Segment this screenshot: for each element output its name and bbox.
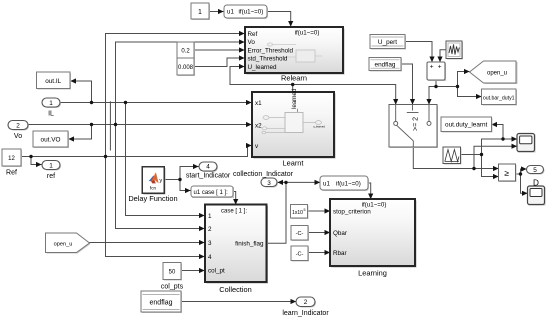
wire branch up to scope input2 <box>474 146 517 168</box>
inport 2 Vo <box>8 121 29 141</box>
sum block <box>427 62 446 81</box>
svg-text:1: 1 <box>49 163 53 170</box>
svg-text:-C-: -C- <box>296 231 304 237</box>
relational operator block <box>499 164 517 182</box>
svg-text:3: 3 <box>267 180 271 187</box>
svg-text:2: 2 <box>16 123 20 130</box>
junction goto branch <box>456 85 459 88</box>
wire to scope2 <box>521 174 528 193</box>
wire finish_flag up <box>267 182 287 243</box>
wire u1-case to Collection trigger <box>233 192 236 205</box>
wire Vo line to Learnt x2 <box>28 124 251 126</box>
wire to collection_Indicator port <box>278 181 286 183</box>
junction switch output <box>472 167 475 170</box>
svg-text:if(u1~=0): if(u1~=0) <box>295 30 320 37</box>
triangle wave generator <box>443 147 462 165</box>
inport 1 IL <box>42 98 61 117</box>
scope block 2 <box>528 186 546 206</box>
junction ref vertical <box>104 155 107 158</box>
wire u_learned net to switch input1 <box>293 85 396 105</box>
svg-text:learn_Indicator: learn_Indicator <box>282 310 329 317</box>
MATLAB function block Delay Function <box>128 167 177 204</box>
svg-text:Relearn: Relearn <box>281 74 307 83</box>
switch block <box>389 105 438 149</box>
svg-text:u_learned: u_learned <box>313 124 325 128</box>
svg-text:1x10: 1x10 <box>292 210 303 216</box>
junction collection indicator <box>284 181 287 184</box>
svg-text:Ref: Ref <box>248 31 258 38</box>
wire if-block1 to Relearn action port <box>267 12 291 27</box>
svg-text:-C-: -C- <box>296 252 304 258</box>
junction IL to Collection <box>124 101 127 104</box>
out.bar_duty1 <box>482 89 518 106</box>
svg-text:3: 3 <box>208 240 212 247</box>
svg-text:endflag: endflag <box>375 62 396 69</box>
svg-text:start_Indicator: start_Indicator <box>186 173 231 180</box>
svg-text:out.bar_duty1: out.bar_duty1 <box>483 95 515 101</box>
junction delay output <box>178 178 181 181</box>
wire sum output down <box>435 80 437 87</box>
wire U_pert to sum <box>405 42 432 62</box>
svg-text:col_pts: col_pts <box>161 283 184 290</box>
svg-text:≥: ≥ <box>504 168 509 178</box>
wire -C- to Qbar <box>308 232 330 234</box>
svg-text:U_pert: U_pert <box>378 39 397 46</box>
wire noise to sum <box>440 50 446 62</box>
wire if-block2 to Learning action port <box>368 183 371 199</box>
junction sum output <box>434 85 437 88</box>
svg-text:2: 2 <box>304 299 308 306</box>
wire u_learned feedback to Relearn U_learned <box>230 67 293 85</box>
case action block u1 case <box>191 186 234 198</box>
wire vertical stub <box>109 102 111 150</box>
svg-text:5: 5 <box>533 167 537 174</box>
wire carrier to relational input2 <box>482 176 499 178</box>
From tag endflag bottom <box>141 291 182 313</box>
wire to open_u Goto <box>458 72 470 87</box>
constant 0.008 <box>177 58 195 76</box>
wire Vo net vertical down to Collection in2 <box>116 125 205 229</box>
svg-text:0.2: 0.2 <box>181 48 190 54</box>
junction duty branch <box>501 137 504 140</box>
svg-text:IL: IL <box>48 110 54 117</box>
outport 1 ref <box>42 161 61 180</box>
outport 5 <box>527 166 545 188</box>
wire endflag to switch input2 <box>401 64 413 104</box>
if action block u1 if(u1~=0) <box>224 5 268 19</box>
constant 1 <box>191 3 210 20</box>
svg-text:out.VO: out.VO <box>41 137 61 144</box>
svg-text:Rbar: Rbar <box>333 250 347 257</box>
constant 0.2 <box>177 42 195 59</box>
wire junction to u1-case <box>180 180 190 191</box>
From tag endflag top <box>369 58 402 72</box>
wire const1 to if-block1 <box>209 11 223 13</box>
svg-text:x1: x1 <box>255 100 262 107</box>
svg-text:finish_flag: finish_flag <box>235 241 264 248</box>
constant -C- Rbar <box>291 246 309 262</box>
svg-text:case [ 1 ]:: case [ 1 ]: <box>221 209 247 215</box>
svg-text:u_learned: u_learned <box>292 89 298 116</box>
svg-text:ref: ref <box>47 173 55 180</box>
svg-text:u1: u1 <box>323 181 330 188</box>
svg-text:stop_criterion: stop_criterion <box>333 208 371 215</box>
svg-text:0.008: 0.008 <box>178 65 194 71</box>
svg-text:Ref: Ref <box>6 170 17 177</box>
svg-text:Learnt: Learnt <box>283 159 304 168</box>
svg-text:y: y <box>159 178 162 184</box>
wire 50 to col_pt <box>181 270 204 272</box>
svg-text:Qbar: Qbar <box>333 230 347 237</box>
svg-text:collection_Indicator: collection_Indicator <box>233 171 294 178</box>
svg-text:Collection: Collection <box>219 285 251 294</box>
outport 3 collection_Indicator <box>233 171 294 187</box>
svg-text:4: 4 <box>206 164 210 171</box>
wire junction to start_Indicator <box>180 167 198 180</box>
svg-text:open_u: open_u <box>487 71 507 77</box>
svg-text:+: + <box>438 64 442 71</box>
svg-text:col_pt: col_pt <box>208 267 225 274</box>
wire 0.2 to Error_Threshold <box>194 49 244 51</box>
svg-text:2: 2 <box>208 226 212 233</box>
svg-text:if(u1~=0): if(u1~=0) <box>336 181 361 188</box>
svg-text:Vo: Vo <box>14 133 22 140</box>
wire carrier vertical <box>481 139 483 177</box>
constant 12 Ref <box>2 149 22 177</box>
wire ref net vertical to Relearn Ref <box>106 34 245 157</box>
outport 2 learn_Indicator <box>282 297 329 317</box>
junction out.IL branch <box>90 101 93 104</box>
svg-text:endflag: endflag <box>150 299 173 306</box>
wire Delay Function output junction <box>164 179 180 181</box>
wire IL line to Learnt x1 <box>60 102 251 104</box>
wire branch to out.duty_learnt <box>492 125 503 140</box>
svg-text:Delay Function: Delay Function <box>128 194 177 203</box>
wire relational output <box>516 173 521 175</box>
wire 12 constant to Learnt v <box>21 146 251 157</box>
wire open_u From to Collection in3 <box>90 242 205 244</box>
subsystem Learning <box>330 199 417 277</box>
svg-text:U_learned: U_learned <box>248 64 278 71</box>
out.IL <box>37 72 72 90</box>
svg-text:4: 4 <box>208 254 212 261</box>
wire branch to out.IL <box>71 81 92 103</box>
junction ref oval branch <box>29 155 32 158</box>
wire -C- to Rbar <box>308 252 330 254</box>
svg-text:Learning: Learning <box>358 268 387 277</box>
junction Vo vertical <box>114 123 117 126</box>
wire ref net vertical down to Collection in4 <box>106 157 205 257</box>
if action block 2 <box>320 176 369 191</box>
wire 1x10 to stop_criterion <box>308 210 330 212</box>
svg-text:if(u1~=0): if(u1~=0) <box>239 9 264 16</box>
wire sum net to switch input3 <box>429 87 436 105</box>
svg-text:>= 2: >= 2 <box>413 117 420 131</box>
svg-text:u1: u1 <box>227 9 234 16</box>
svg-text:out.duty_learnt: out.duty_learnt <box>445 122 488 129</box>
wire switch output to relational input1 <box>413 147 498 169</box>
junction out.VO branch <box>90 123 93 126</box>
outport 4 start_Indicator <box>186 162 231 180</box>
constant 50 col_pts <box>161 263 184 291</box>
constant 1x10 <box>291 205 309 220</box>
wire u_learned net from Learnt top <box>292 85 294 93</box>
svg-text:1: 1 <box>198 9 202 16</box>
scope block 1 <box>517 134 536 153</box>
Goto tag open_u <box>470 61 518 84</box>
wire IL net down to Collection in1 <box>126 103 205 216</box>
svg-text:1: 1 <box>208 213 212 220</box>
From tag U_pert <box>370 35 406 50</box>
From tag open_u left <box>46 233 91 254</box>
svg-text:+: + <box>430 64 434 71</box>
wire branch to ref outport <box>31 157 41 165</box>
out.VO <box>33 131 69 148</box>
svg-text:x2: x2 <box>255 122 262 129</box>
wire to out.bar_duty1 <box>458 87 482 97</box>
wire sum net right <box>436 86 458 88</box>
subsystem Collection <box>205 205 268 294</box>
svg-text:if(u1~=0): if(u1~=0) <box>362 201 387 208</box>
junction relational output <box>519 172 522 175</box>
svg-text:open_u: open_u <box>54 242 73 248</box>
junction carrier <box>480 153 483 156</box>
wire to if-block2 <box>286 181 320 183</box>
out.duty_learnt <box>441 117 493 133</box>
junction u_learned net <box>291 83 294 86</box>
svg-text:50: 50 <box>169 270 176 276</box>
svg-text:5: 5 <box>304 208 306 212</box>
wire Vo net vertical to Relearn Vo <box>116 42 245 125</box>
svg-text:out.IL: out.IL <box>45 78 61 85</box>
svg-text:u1 case [ 1 ]:: u1 case [ 1 ]: <box>194 190 229 196</box>
svg-text:Error_Threshold: Error_Threshold <box>248 47 294 54</box>
constant -C- Qbar <box>291 226 309 242</box>
noise generator block <box>446 41 463 60</box>
svg-text:12: 12 <box>8 156 15 162</box>
wire carrier to scope input1 <box>482 138 517 140</box>
svg-text:1: 1 <box>49 100 53 107</box>
svg-text:std_Threshold: std_Threshold <box>248 55 288 62</box>
svg-text:Vo: Vo <box>248 39 256 46</box>
wire branch to out.VO <box>69 125 92 140</box>
wire to outport 5 <box>521 169 527 174</box>
subsystem Learnt <box>252 89 336 168</box>
subsystem Relearn <box>245 27 345 83</box>
svg-text:fcn: fcn <box>150 186 157 191</box>
wire 0.008 to std_Threshold <box>194 58 244 67</box>
wire triangle generator output <box>461 154 482 156</box>
wire endflag to learn_Indicator <box>181 301 296 303</box>
